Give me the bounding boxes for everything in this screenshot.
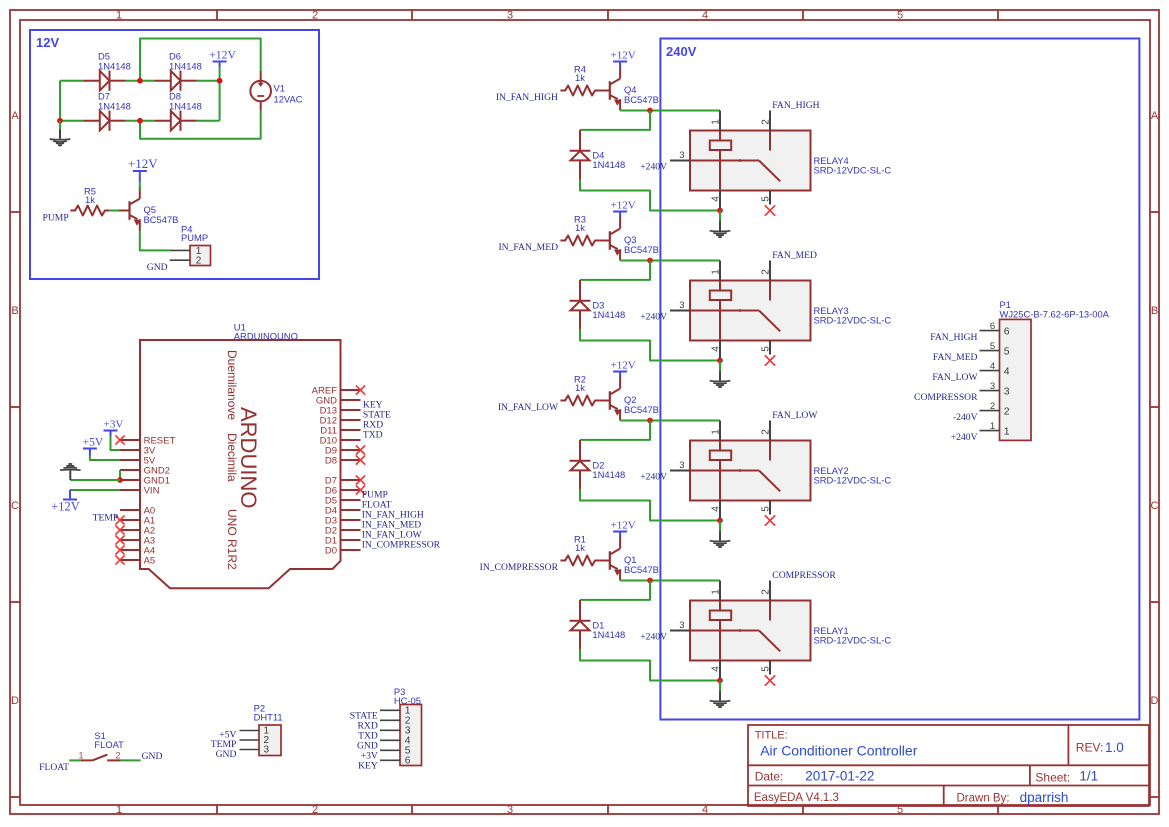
U1 pin D4: [325, 506, 361, 517]
svg-text:1N4148: 1N4148: [169, 100, 202, 111]
svg-text:1: 1: [710, 429, 721, 435]
svg-text:1N4148: 1N4148: [592, 469, 625, 480]
svg-text:D8: D8: [325, 456, 337, 467]
svg-text:5: 5: [760, 346, 771, 352]
diode D6 1N4148: [155, 51, 202, 91]
svg-text:ARDUINOUNO: ARDUINOUNO: [234, 331, 298, 342]
svg-text:4: 4: [710, 346, 721, 352]
connector P1 WJ25C-B-7.62-6P-13-00A: [980, 299, 1110, 441]
junction Q4 emitter node: [647, 108, 653, 114]
U1 pin D2: [325, 526, 361, 537]
U1 pin GND2: [120, 466, 170, 477]
svg-text:2: 2: [312, 804, 318, 816]
resistor R2 1k: [560, 374, 599, 406]
svg-text:+240V: +240V: [640, 472, 667, 483]
connector P3 HC-05: [380, 686, 422, 767]
ground GND relay2: [710, 521, 731, 548]
power flag +3V: [104, 419, 124, 451]
svg-text:+12V: +12V: [611, 360, 636, 372]
svg-text:3: 3: [679, 620, 684, 631]
wire S1 to GND label: [121, 759, 141, 761]
svg-text:2017-01-22: 2017-01-22: [805, 769, 874, 784]
wire +12V node vertical: [219, 81, 221, 121]
no-connect X relay1 pin5: [765, 675, 775, 685]
svg-text:1k: 1k: [575, 72, 585, 83]
svg-text:2: 2: [760, 589, 771, 595]
svg-text:PUMP: PUMP: [43, 212, 69, 223]
wire D7-D8 node: [126, 120, 155, 122]
svg-text:IN_FAN_MED: IN_FAN_MED: [498, 242, 558, 253]
svg-text:1k: 1k: [575, 542, 585, 553]
svg-text:Date:: Date:: [755, 770, 784, 784]
diode D5 1N4148: [84, 51, 131, 91]
svg-text:3: 3: [990, 381, 995, 392]
svg-text:1: 1: [710, 119, 721, 125]
svg-text:COMPRESSOR: COMPRESSOR: [914, 392, 978, 403]
wire emitter node to D3 cathode: [580, 261, 650, 280]
svg-text:3: 3: [679, 300, 684, 311]
IC U1 ARDUINOUNO body: [140, 322, 341, 589]
frame column numbers: [116, 10, 903, 817]
junction node AC2 left: [57, 118, 63, 124]
svg-text:IN_FAN_HIGH: IN_FAN_HIGH: [496, 92, 558, 103]
U1 pin AREF: [312, 386, 361, 397]
wire emitter node to D2 cathode: [580, 421, 650, 440]
svg-text:2: 2: [115, 751, 120, 762]
svg-text:12VAC: 12VAC: [274, 94, 303, 105]
svg-text:D0: D0: [325, 546, 337, 557]
transistor Q2 BC547B: [599, 377, 659, 421]
wire D3 anode to ground node: [580, 329, 720, 361]
ground GND bridge: [50, 121, 71, 146]
U1 pin D6: [325, 486, 361, 497]
diode D2 1N4148: [570, 440, 626, 489]
svg-text:1N4148: 1N4148: [98, 100, 131, 111]
svg-text:+240V: +240V: [640, 312, 667, 323]
svg-text:4: 4: [1004, 365, 1010, 377]
ground GND relay4: [710, 211, 731, 238]
wire Q1 emitter to relay pin1: [620, 580, 720, 582]
svg-text:1: 1: [116, 804, 122, 816]
svg-text:1/1: 1/1: [1079, 769, 1098, 784]
diode D1 1N4148: [570, 600, 626, 649]
wire emitter node to D4 cathode: [580, 111, 650, 130]
svg-text:FLOAT: FLOAT: [39, 762, 69, 773]
svg-text:KEY: KEY: [358, 761, 378, 772]
svg-text:FAN_LOW: FAN_LOW: [932, 372, 978, 383]
wire D6 cathode to +12V node: [197, 80, 220, 82]
no-connect X D7: [356, 475, 365, 484]
junction Q3 emitter node: [647, 258, 653, 264]
svg-text:3: 3: [679, 460, 684, 471]
svg-text:+3V: +3V: [104, 419, 124, 431]
no-connect X relay4 pin5: [765, 205, 775, 215]
svg-text:FLOAT: FLOAT: [94, 739, 124, 750]
svg-text:1: 1: [710, 589, 721, 595]
voltage source V1 12VAC: [250, 71, 302, 110]
svg-text:3: 3: [679, 150, 684, 161]
svg-text:3: 3: [507, 804, 513, 816]
svg-text:-240V: -240V: [953, 412, 978, 423]
svg-text:1k: 1k: [85, 194, 95, 205]
svg-text:1N4148: 1N4148: [169, 60, 202, 71]
svg-text:FAN_MED: FAN_MED: [933, 352, 978, 363]
U1 pin 3V: [120, 446, 156, 457]
svg-text:FAN_MED: FAN_MED: [772, 250, 817, 261]
svg-text:2: 2: [312, 10, 318, 22]
wire R5 to Q5 base: [109, 210, 119, 212]
diode D7 1N4148: [84, 91, 131, 131]
junction node AC2 right: [137, 118, 143, 124]
U1 pin D0: [325, 546, 361, 557]
U1 pin D8: [325, 456, 361, 467]
svg-text:BC547B: BC547B: [624, 244, 659, 255]
no-connect X A2: [115, 525, 124, 534]
title block: [748, 725, 1149, 806]
power flag +12V Q1: [611, 520, 636, 538]
svg-text:5: 5: [1004, 345, 1010, 357]
svg-text:2: 2: [760, 429, 771, 435]
wire GND1 to ground: [70, 479, 120, 481]
diode D4 1N4148: [570, 130, 626, 179]
no-connect X A3: [115, 535, 124, 544]
svg-text:BC547B: BC547B: [144, 214, 179, 225]
svg-text:TXD: TXD: [363, 430, 383, 441]
svg-text:12V: 12V: [36, 35, 59, 50]
ground GND relay3: [710, 361, 731, 388]
frame row letters: [11, 110, 1159, 707]
U1 pin D9: [325, 446, 361, 457]
no-connect X D6: [356, 485, 365, 494]
svg-text:D: D: [1151, 695, 1159, 707]
svg-text:COMPRESSOR: COMPRESSOR: [772, 570, 836, 581]
wire Q5 emitter to P4 pin1: [140, 231, 170, 251]
svg-text:5: 5: [897, 10, 903, 22]
relay RELAY3 SRD-12VDC-SL-C: [670, 261, 891, 361]
no-connect X A1: [115, 515, 124, 524]
U1 pin A0: [120, 506, 155, 517]
svg-text:BC547B: BC547B: [624, 94, 659, 105]
power flag +5V: [83, 437, 120, 461]
svg-text:1: 1: [1004, 425, 1010, 437]
svg-text:D: D: [11, 695, 19, 707]
svg-text:C: C: [11, 500, 19, 512]
svg-text:3: 3: [1004, 385, 1010, 397]
svg-text:3: 3: [507, 10, 513, 22]
svg-text:+5V: +5V: [83, 437, 104, 449]
svg-text:1: 1: [116, 10, 122, 22]
svg-text:4: 4: [990, 361, 995, 372]
svg-text:WJ25C-B-7.62-6P-13-00A: WJ25C-B-7.62-6P-13-00A: [1000, 308, 1110, 319]
wire FLOAT to S1: [69, 759, 80, 761]
svg-text:240V: 240V: [666, 44, 697, 59]
svg-text:2: 2: [760, 269, 771, 275]
svg-text:VIN: VIN: [144, 486, 160, 497]
junction relay4 pin4 ground node: [717, 208, 723, 214]
svg-text:5: 5: [990, 341, 995, 352]
svg-text:IN_FAN_LOW: IN_FAN_LOW: [498, 402, 559, 413]
U1 pin A4: [120, 546, 155, 557]
svg-text:4: 4: [710, 666, 721, 672]
switch S1 FLOAT: [78, 730, 124, 762]
svg-text:4: 4: [702, 10, 708, 22]
svg-text:dparrish: dparrish: [1020, 790, 1069, 805]
svg-text:2: 2: [760, 119, 771, 125]
svg-text:BC547B: BC547B: [624, 564, 659, 575]
svg-text:GND: GND: [142, 751, 163, 762]
svg-text:FAN_LOW: FAN_LOW: [772, 410, 818, 421]
svg-text:2: 2: [196, 256, 202, 267]
wire AC1 left vertical: [59, 81, 61, 121]
svg-text:BC547B: BC547B: [624, 404, 659, 415]
ground GND relay1: [710, 681, 731, 708]
svg-text:IN_COMPRESSOR: IN_COMPRESSOR: [480, 562, 559, 573]
U1 pin D13: [320, 406, 361, 417]
svg-text:5: 5: [760, 196, 771, 202]
svg-text:B: B: [1151, 305, 1158, 317]
wire Q3 emitter to relay pin1: [620, 260, 720, 262]
svg-text:FAN_HIGH: FAN_HIGH: [772, 100, 819, 111]
transistor Q3 BC547B: [599, 217, 659, 261]
svg-text:SRD-12VDC-SL-C: SRD-12VDC-SL-C: [814, 164, 892, 175]
resistor R5 1k: [70, 186, 109, 216]
svg-text:B: B: [11, 305, 18, 317]
svg-text:PUMP: PUMP: [181, 232, 208, 243]
wire D5-D6 node: [126, 80, 155, 82]
diode D8 1N4148: [155, 91, 202, 131]
svg-text:1.0: 1.0: [1105, 740, 1124, 755]
U1 pin A2: [120, 526, 155, 537]
svg-text:A: A: [11, 110, 19, 122]
svg-text:EasyEDA V4.1.3: EasyEDA V4.1.3: [754, 792, 839, 804]
svg-text:1k: 1k: [575, 222, 585, 233]
power flag +12V bridge: [209, 49, 236, 81]
svg-text:4: 4: [710, 196, 721, 202]
svg-text:1N4148: 1N4148: [98, 60, 131, 71]
junction relay2 pin4 ground node: [717, 518, 723, 524]
svg-text:Drawn By:: Drawn By:: [957, 793, 1010, 805]
U1 pin A1: [120, 516, 155, 527]
svg-text:C: C: [1151, 500, 1159, 512]
svg-text:Sheet:: Sheet:: [1035, 770, 1070, 784]
svg-text:5: 5: [760, 506, 771, 512]
wire VIN to +12V: [70, 489, 120, 491]
U1 pin VIN: [120, 486, 160, 497]
ground GND U1: [60, 464, 81, 480]
no-connect X A4: [115, 545, 124, 554]
svg-text:+12V: +12V: [611, 50, 636, 62]
svg-text:GND: GND: [216, 749, 237, 760]
U1 pin A5: [120, 556, 155, 567]
svg-text:Diecimila: Diecimila: [225, 433, 239, 482]
junction relay3 pin4 ground node: [717, 358, 723, 364]
svg-text:TITLE:: TITLE:: [755, 730, 788, 742]
svg-text:4: 4: [702, 804, 708, 816]
svg-text:2: 2: [1004, 405, 1010, 417]
junction node AC1: [137, 78, 143, 84]
svg-text:GND: GND: [147, 262, 168, 273]
junction GND1 node: [117, 477, 123, 483]
no-connect X AREF: [356, 385, 365, 394]
U1 pin D1: [325, 536, 361, 547]
wire GND2 to GND1: [119, 470, 121, 480]
transistor Q5 BC547B: [119, 187, 178, 231]
wire row1 left: [60, 80, 84, 82]
U1 pin A3: [120, 536, 155, 547]
svg-text:IN_COMPRESSOR: IN_COMPRESSOR: [362, 539, 441, 550]
svg-text:1: 1: [710, 269, 721, 275]
U1 pin D3: [325, 516, 361, 527]
svg-text:+240V: +240V: [640, 632, 667, 643]
diode D3 1N4148: [570, 280, 626, 329]
relay RELAY2 SRD-12VDC-SL-C: [670, 421, 891, 521]
svg-text:HC-05: HC-05: [394, 695, 421, 706]
svg-text:A5: A5: [144, 556, 156, 567]
svg-text:+240V: +240V: [951, 432, 978, 443]
U1 pin D7: [325, 476, 361, 487]
U1 pin GND1: [120, 476, 170, 487]
junction Q1 emitter node: [647, 578, 653, 584]
svg-text:1N4148: 1N4148: [592, 159, 625, 170]
transistor Q1 BC547B: [599, 537, 659, 581]
wire emitter node to D1 cathode: [580, 581, 650, 600]
relay RELAY1 SRD-12VDC-SL-C: [670, 581, 891, 681]
wire AC2 bottom loop to V1: [140, 110, 261, 138]
svg-text:2: 2: [990, 401, 995, 412]
svg-text:+12V: +12V: [128, 156, 158, 171]
U1 pin D12: [320, 416, 361, 427]
wire Q2 emitter to relay pin1: [620, 420, 720, 422]
svg-text:+12V: +12V: [611, 520, 636, 532]
svg-text:6: 6: [1004, 325, 1010, 337]
svg-text:SRD-12VDC-SL-C: SRD-12VDC-SL-C: [814, 314, 892, 325]
svg-text:+240V: +240V: [640, 162, 667, 173]
resistor R3 1k: [560, 214, 599, 246]
svg-text:3: 3: [264, 745, 270, 756]
U1 pin D11: [320, 426, 360, 437]
svg-text:1: 1: [990, 421, 995, 432]
svg-text:1N4148: 1N4148: [592, 629, 625, 640]
wire row2 left: [60, 120, 84, 122]
power flag +12V VIN: [51, 490, 80, 514]
svg-text:V1: V1: [274, 83, 285, 94]
wire D8 cathode to +12V vertical: [197, 120, 220, 122]
junction Q2 emitter node: [647, 418, 653, 424]
U1 pin RESET: [120, 436, 175, 447]
svg-text:+12V: +12V: [51, 500, 80, 514]
resistor R1 1k: [560, 534, 599, 566]
svg-text:DHT11: DHT11: [254, 712, 283, 723]
U1 pin GND: [316, 396, 361, 407]
no-connect X D9: [356, 445, 365, 454]
svg-text:TEMP: TEMP: [93, 512, 119, 523]
svg-text:4: 4: [710, 506, 721, 512]
svg-text:SRD-12VDC-SL-C: SRD-12VDC-SL-C: [814, 474, 892, 485]
junction relay1 pin4 ground node: [717, 678, 723, 684]
U1 pin D10: [320, 436, 361, 447]
U1 pin 5V: [120, 456, 156, 467]
no-connect X D8: [356, 455, 365, 464]
wire D4 anode to ground node: [580, 179, 720, 211]
junction node +12V: [217, 78, 223, 84]
wire Q4 emitter to relay pin1: [620, 110, 720, 112]
12V section box: [30, 30, 319, 279]
power flag +12V Q4: [611, 50, 636, 68]
svg-text:REV:: REV:: [1076, 740, 1104, 754]
U1 pin D5: [325, 496, 361, 507]
connector P4 PUMP: [170, 223, 211, 266]
svg-text:FAN_HIGH: FAN_HIGH: [930, 332, 977, 343]
wire AC1 top loop to V1: [140, 39, 261, 81]
svg-text:6: 6: [990, 321, 995, 332]
svg-text:1N4148: 1N4148: [592, 309, 625, 320]
no-connect X relay2 pin5: [765, 515, 775, 525]
svg-text:UNO R1R2: UNO R1R2: [225, 509, 239, 570]
svg-text:6: 6: [405, 756, 411, 767]
power flag +12V Q2: [611, 360, 636, 378]
no-connect X relay3 pin5: [765, 355, 775, 365]
no-connect X A5: [115, 555, 124, 564]
power flag +12V Q5: [128, 156, 158, 191]
connector P2 DHT11: [240, 703, 283, 756]
no-connect X RESET: [115, 435, 124, 444]
svg-text:A: A: [1151, 110, 1159, 122]
power flag +12V Q3: [611, 200, 636, 218]
svg-text:5: 5: [760, 666, 771, 672]
relay RELAY4 SRD-12VDC-SL-C: [670, 111, 891, 211]
240V section box: [660, 39, 1139, 720]
transistor Q4 BC547B: [599, 67, 659, 111]
wire D1 anode to ground node: [580, 649, 720, 681]
svg-text:1k: 1k: [575, 382, 585, 393]
svg-text:+12V: +12V: [209, 49, 236, 62]
svg-text:Air Conditioner Controller: Air Conditioner Controller: [760, 742, 918, 758]
resistor R4 1k: [560, 64, 599, 96]
wire D2 anode to ground node: [580, 489, 720, 521]
svg-text:SRD-12VDC-SL-C: SRD-12VDC-SL-C: [814, 634, 892, 645]
svg-text:+12V: +12V: [611, 200, 636, 212]
